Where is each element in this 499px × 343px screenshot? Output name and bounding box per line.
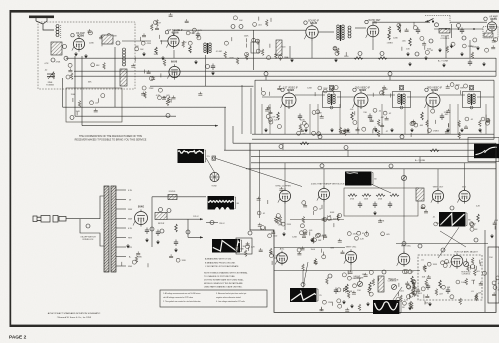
diagonal pointer hor [440,231,466,247]
W1 callout box [212,156,216,160]
sound if lower parts [131,64,169,106]
wire sync vert 2 [323,200,325,236]
tube V3 2ND SOUND IF 6AU6 [167,64,180,79]
wire if vertical 10 [427,104,429,134]
wire if stage 3 grid [407,96,427,98]
wire vert drop right2 [464,163,466,190]
cap psu 3 [174,240,178,247]
wire agc line 2 [75,115,176,117]
waveform box W1 video det [178,149,211,163]
wire if strip bus 1 [252,133,494,135]
AC plug male [33,216,41,222]
resistor hor 2 [439,280,442,288]
notes box col2 line 3 [216,300,245,303]
label filter choke [158,223,165,225]
wire 250v arrow [188,236,203,238]
coil core dashed [60,25,62,39]
junction if bus 1 [318,135,322,139]
diagonal pointer socket [206,158,215,172]
response box outline [468,138,499,162]
wire enclosure drop a [282,143,284,150]
text copyright line 1 [48,312,101,315]
tuner RF coil hatched [51,42,62,55]
ground ratio det [334,58,338,62]
wire vert drop v2 [173,50,175,58]
wire if vertical 12 [457,104,459,134]
junction mid a [166,114,170,118]
wire B+Y bus [66,57,496,59]
junction bus a [358,52,362,56]
hor box parts c [466,258,480,273]
junction bus 150 [344,146,348,150]
label volume control 2 [440,38,449,40]
text paragraph line 4 [204,282,243,285]
ground audio 6 [408,62,412,66]
ground if 2 [304,128,308,132]
label hor hold 2 [462,274,471,276]
fine tuning trimmer [47,72,55,80]
sync mid parts [292,201,322,242]
wire transformer tap 9 [116,265,126,267]
tube V15 vert out a [431,188,444,203]
label vert osc [346,247,357,249]
text cooperation line 1 [79,135,142,138]
wire audio plate [373,21,430,23]
tube V2 1ST SOUND IF 6AU6 [165,30,183,49]
label volume control [441,35,450,37]
junction line switch [86,224,90,228]
tuner dashed enclosure [38,22,135,89]
text cooperation line 2 [75,138,147,141]
cap sync 3 [388,202,392,209]
vert out left parts [421,205,443,227]
video if parts a [261,86,282,129]
diagonal pointer w7 [303,262,308,288]
AC interlock [41,216,66,223]
video if parts g [479,115,491,134]
junction w7 [301,283,305,287]
resistor bus 1 [354,57,363,60]
label tap 9 [128,266,133,268]
wire if vertical 1 [261,104,263,134]
wire psu mid [187,219,189,237]
text paragraph line 5 [204,286,243,289]
vert mid extra [347,219,389,241]
ground sync 1 [282,232,286,236]
wire if vertical 13 [485,104,487,134]
wire divider drop 1 [265,76,267,80]
junction psu out [186,230,190,234]
hor below tubes extra [396,285,417,308]
text paragraph line 1 [204,272,248,275]
label 230v [219,223,225,225]
on-off switch [425,19,434,23]
bus mid vert 259 [259,150,261,218]
wire audio junction dots [434,28,483,30]
junction filter cap 4 [160,229,164,233]
wire primary bot [96,233,104,246]
junction bus 169 [389,164,393,168]
resistor if 3 [421,112,424,120]
on-off switch dashed drop [449,16,451,25]
label 4.5 mc [216,51,223,53]
ground hor 2 [408,306,412,310]
wire sync hor 3 [290,219,344,221]
wire if vertical 8 [381,104,383,134]
junction agc [70,116,74,120]
waveform box W2 sync [345,172,377,186]
mid gap parts [141,86,202,103]
notes box [160,290,267,307]
ground volume [450,44,454,48]
junction height b [382,270,386,274]
wire agc line 1 [63,106,227,108]
filter choke hatched [155,213,167,220]
cap audio 3 [468,60,472,67]
junction audio cap 1 [435,23,439,27]
sound if mid parts [182,28,202,47]
resistor sound 2 [189,46,192,53]
wire vert out drop [350,263,352,271]
label tap 4 [128,219,133,221]
ground sync box [373,211,377,215]
ground audio 3 [406,52,410,56]
flyback parts [489,257,499,296]
cap height 1 [334,288,338,295]
junction audio cap 3 [462,36,466,40]
ground sound 2 [194,60,198,64]
wire agc hor [274,257,277,259]
tuner top extra [68,63,105,84]
hor bottom cluster [403,288,430,309]
bus left vert 233 [232,126,234,143]
ratio det tertiary [348,26,351,38]
label interlock [83,239,95,241]
tuner junction a [116,41,120,45]
text page 2 [9,335,27,341]
antenna [29,16,54,25]
junction filter cap 1 [159,208,163,212]
notes box col2 line 2 [216,296,241,299]
wire transformer tap 6 [116,237,126,239]
junction hor 1 [418,244,422,248]
video if parts i [373,85,391,97]
tube V6 AF AMP 6AT6 [484,16,498,34]
wire sound bottom [150,85,254,87]
ground audio 8 [482,62,486,66]
waveform box W6 saw [439,212,471,227]
bus line 156 [251,156,496,158]
wire vert drop v4 [311,40,313,58]
ground if 9 [460,128,464,132]
page border top [10,10,499,13]
resistor sync row 2 [362,194,371,197]
ground psu 4 [174,248,178,252]
between W7 W8 cluster [320,291,361,312]
wire sound right vert [253,30,255,70]
tube V4 SOUND IF 6AU6 [304,20,320,40]
audio mid parts [420,37,449,55]
sync lower mid extra [302,214,342,243]
af amp dashed box [483,27,498,39]
wire sync vert 1 [284,202,286,231]
tube V9 3RD VIDEO IF 6CB6 [425,88,443,109]
junction vert 2 [474,238,478,242]
ground if 7 [410,128,414,132]
label yoke socket [211,186,217,188]
ground audio 7 [442,63,446,67]
divider line 2 [74,75,496,77]
label tap 6 [128,238,133,240]
wire agc vert [224,107,226,150]
vert right lower extra [470,262,486,285]
junction encl left [248,231,252,235]
wire if vertical 6 [339,104,341,134]
ground hor 1 [428,302,432,306]
label tap 5 [128,228,133,230]
bus line 150 [224,149,496,151]
ground audio 4 [476,46,480,50]
tube V17 hor osc [397,251,410,267]
video if parts e [410,109,439,137]
junction takeoff [206,65,210,69]
wire volume drop [451,24,453,38]
text note bullet 2 [205,261,236,264]
ground if 8 [446,128,450,132]
wire takeoff down [205,55,207,86]
junction audio cap 2 [457,24,461,28]
label sync r1 [350,199,355,201]
resistor hor 1 [411,276,414,284]
vert out parts [399,270,422,297]
wire vert drop b [445,36,447,58]
wire tuner drop 3 [81,56,83,126]
bus line 169 [246,168,496,170]
wire divider drop 2 [389,76,391,80]
pot hor speed [401,175,406,180]
label 135v [193,216,199,218]
label tap 7 [128,247,133,249]
cap hor 2 [446,288,450,295]
wire if stage 1 plate [295,94,325,96]
diagonal pointer w6 [438,227,459,258]
wire psu branch [206,222,218,224]
text copyright line 2 [57,316,92,319]
wire audio out [450,21,487,23]
junction bus c [415,52,419,56]
video if parts h [307,86,338,97]
vert lower parts2 [259,248,281,265]
waveform box W5 sawtooth [212,239,246,253]
wire sound plate drop [173,30,175,35]
wire sound if out [318,31,334,33]
wire transformer tap 7 [116,246,126,248]
label on-off [80,237,96,239]
label fine tuning [48,82,53,84]
resistor if 1 [277,112,280,120]
label hor out [454,251,478,254]
wire psu top rail [152,196,206,198]
sound if left parts [135,26,166,66]
cap sound 1 [196,32,200,39]
antenna matching coil [56,25,59,37]
junction 230v [210,221,214,225]
ground sound 3 [142,52,146,56]
label sync r2 [364,199,369,201]
sound right box [251,42,259,53]
junction divider b [388,72,392,76]
wire if left vert [254,80,256,134]
tuner osc coil loops [123,48,126,66]
junction bus b [380,52,384,56]
wire if vertical 9 [404,104,406,134]
waveform box W7 vert sync [290,288,322,302]
wire hor drop [403,169,405,253]
junction hor 2 [441,248,445,252]
text paragraph line 3 [204,279,245,282]
tuner junction b [51,58,55,62]
junction hor drop [402,242,406,246]
diagonal pointer to sync [216,159,302,187]
vert out transformer hatched [378,276,384,292]
wire if stage 2 grid [337,96,355,98]
notes box col2 line 1 [216,292,246,295]
tuner box outline [66,88,122,122]
junction vert 1 [450,206,454,210]
notes box col1 line 2 [163,296,194,299]
resistor if 2 [351,112,354,120]
sound if right parts [224,35,260,64]
resistor bus 150 [430,149,439,152]
ground height 2 [350,304,354,308]
wire sync hor 2 [274,270,420,272]
wire if vertical 5 [317,104,319,134]
label tuning [46,84,54,86]
label vert lin control2 [388,281,397,283]
wire if det out [477,96,494,98]
wire if stage 3 plate [439,94,465,96]
wire if strip bus 2 [252,138,494,140]
page border bottom [10,325,499,327]
junction filter cap 3 [150,227,154,231]
flyback box right [488,247,499,303]
sound area extra [151,13,189,31]
wire sync drop 1 [284,163,286,190]
ground tuner 1 [74,52,78,56]
tube V18 rectifier 5U4G [133,210,148,227]
power transformer T1 primary [104,186,109,272]
resistor sync row 1 [348,194,357,197]
left edge filter parts [235,242,255,257]
cap if 2 [368,114,372,121]
wire antenna down [43,24,54,30]
ground height [342,300,346,304]
wire tuner drop 1 [62,78,64,107]
cap audio 2 [460,28,464,35]
ground if 10 [478,128,482,132]
ground vert 1 [490,234,494,238]
label focus [169,191,176,193]
resistor sound 1 [155,47,158,54]
ground sound det [290,58,294,62]
wire sound grid [160,40,168,42]
ground if 6 [390,128,394,132]
wire psu vert [151,197,153,247]
resistor audio 2 [409,38,412,46]
sound det left parts [256,44,289,61]
video if parts f [444,109,473,139]
junction divider a [264,72,268,76]
label 5u4g [138,206,144,209]
resistor bus 2 [378,57,387,60]
tuner osc slug hatched [120,69,127,86]
label tap 2 [129,200,132,202]
divider right vert [495,58,497,76]
bus line 143 [233,142,496,144]
text note bullet 1 [205,258,232,261]
resistor audio 1 [398,24,401,32]
text paragraph line 2 [204,275,236,278]
transformer 1st IF [323,86,341,110]
yoke socket [210,172,219,181]
cap psu 1 [145,228,149,235]
junction bus start [64,56,68,60]
wire primary top [96,196,104,219]
wire vert drop v5 [372,39,374,50]
video if parts j [446,83,468,95]
label hor osc [401,246,411,248]
wire line lower [80,219,96,233]
sync left parts [257,187,284,231]
wire tuner drop 2 [74,56,76,116]
ground psu 2 [156,240,160,244]
ground sound 1 [161,56,165,60]
wire transformer tap 4 [116,218,126,220]
sync mid2 parts [322,205,342,238]
cap sync 2 [373,202,377,209]
tube V12 vert osc [317,186,330,201]
junction if bus 2 [400,135,404,139]
wire if vertical 4 [309,104,311,134]
ground psu 1 [145,238,149,242]
text note bullet 3 [205,265,239,268]
wire sound if input [122,40,151,42]
audio coupling parts [333,46,349,58]
label tap 3 [128,209,133,211]
ground audio 1 [438,48,442,52]
transformer sound takeoff [204,43,212,54]
cap if 1 [298,114,302,121]
wire if vertical 3 [284,104,286,134]
junction filter cap 2 [167,209,171,213]
mid section vert 1 [241,85,243,134]
tube V7 1ST VIDEO IF 6CB6 [281,88,299,109]
label vert out 2 [462,187,467,189]
tuner junction top [63,45,67,49]
junction sound b2 [239,25,243,29]
video if parts d [370,108,392,136]
junction sound b1 [231,25,235,29]
tuner mixer coil hatched [102,35,113,44]
label 4.5mc trap [311,183,350,186]
wire transformer tap 5 [116,227,126,229]
pot vert lin [391,284,396,289]
wire w7 connect [302,271,304,285]
lower enclosure outline [250,143,496,312]
wire transformer tap 2 [116,199,126,201]
sync resistor box [344,188,418,216]
tube V13 AGC keyer [275,251,287,266]
